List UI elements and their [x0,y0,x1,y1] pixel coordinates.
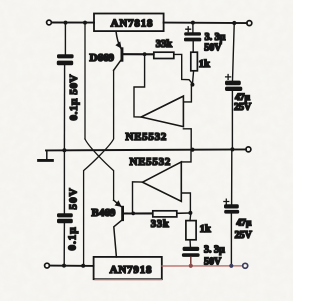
svg-text:0.1µ: 0.1µ [67,226,79,250]
junction: bottom rail / crossover line [81,264,85,268]
svg-text:3. 3µ: 3. 3µ [204,245,225,256]
terminal: +V input (top left) [47,20,52,25]
wire: mid rail to op-amp non-inverting input (bottom) [181,150,191,162]
terminal: -V input (bottom left) [45,263,50,268]
wire: op-amp output to Q1 base [134,54,145,117]
capacitor C5 47u 25V (top) [225,25,242,149]
terminal: common output (mid right) [246,147,251,152]
terminal: -V output (bottom right, navy) [243,263,248,268]
wire: top input rail [52,22,94,24]
ground [39,150,53,160]
wire: bottom input rail [50,265,94,267]
regulator U1 AN7818 [94,14,164,32]
wire: top output rail [164,22,247,25]
resistor R1 33k (top) [154,39,174,59]
op-amp U2b NE5532 (bottom, points left) [143,162,182,201]
junction: top rail / 47u cap [232,21,236,25]
svg-text:AN7818: AN7818 [111,18,154,30]
junction: top rail / 3.3u-1k branch [191,21,195,25]
junction: bottom rail / 47u cap (navy) [229,264,233,268]
svg-text:NE5532: NE5532 [126,131,167,143]
wire: R3 right to feedback node [177,212,189,214]
svg-text:AN7918: AN7918 [110,264,153,276]
wire: crossover X (Q1 lead to bottom rail) [84,70,114,264]
junction: top rail / crossover line [83,21,87,25]
resistor R2 1k (top) [191,52,210,71]
op-amp U2a NE5532 (top, points left) [141,96,183,127]
junction: mid rail / op-amp + inputs [190,148,194,152]
svg-text:D669: D669 [90,52,115,64]
wire: R1 right to feedback node [174,54,192,83]
wire: R4 to C4 [189,215,192,221]
resistor R4 1k (bottom) [186,221,211,240]
svg-text:50V: 50V [68,187,80,209]
junction: mid rail / 0.1u caps [62,148,66,152]
junction: feedback node (R1/R2/op-amp) [190,83,194,87]
junction: bottom rail / C4 (reddish) [189,264,193,268]
capacitor C2 0.1u 50V (bottom) [57,151,73,264]
wire: op-amp output to Q2 base [133,182,143,214]
svg-text:50V: 50V [204,42,222,53]
wire: R2 bottom to feedback node [193,71,194,84]
wire: op-amp inverting input to feedback node (bottom) [181,193,190,213]
wire: red underline below AN7918 [95,279,162,281]
capacitor C4 3.3u 50V (bottom) [182,247,200,265]
junction: top rail / 0.1u cap [64,21,68,25]
regulator U3 AN7918 [94,257,162,279]
svg-text:33k: 33k [151,219,170,230]
svg-text:25V: 25V [234,102,252,113]
svg-text:B469: B469 [92,207,116,219]
junction: bottom rail / 0.1u cap [62,264,66,268]
svg-text:25V: 25V [235,230,253,241]
junction: Q1 base / op-amp output branch [143,52,147,56]
svg-text:47µ: 47µ [236,219,252,229]
svg-text:0.1µ 50V: 0.1µ 50V [68,74,80,121]
wire: mid common rail [46,149,246,150]
resistor R3 33k (bottom) [151,211,177,230]
capacitor C6 47u 25V (bottom) [224,150,239,264]
wire: op-amp non-inverting input to mid rail [183,129,191,150]
svg-text:NE5532: NE5532 [130,156,171,168]
capacitor C1 0.1u 50V (top, electrolytic bars) [57,24,74,150]
wire: crossover line from top rail down [84,24,86,139]
wire: crossover X (top-rail line to Q2 emitter) [85,139,114,200]
junction: mid rail / 47u caps [230,147,234,151]
svg-text:1k: 1k [199,59,210,70]
wire: feedback node to op-amp inverting input [184,87,192,102]
transistor Q1 D669 [114,31,154,70]
transistor Q2 B649 [114,200,153,257]
junction: feedback node bottom (R3/R4/op-amp) [188,211,192,215]
junction: Q2 base / op-amp output branch [131,212,135,216]
svg-text:33k: 33k [156,39,173,50]
capacitor C3 3.3u 50V (top) [184,24,201,52]
wire: bottom output rail (red scan line) [162,265,243,267]
terminal: +V output (top right) [247,21,252,26]
svg-text:1k: 1k [200,224,211,235]
